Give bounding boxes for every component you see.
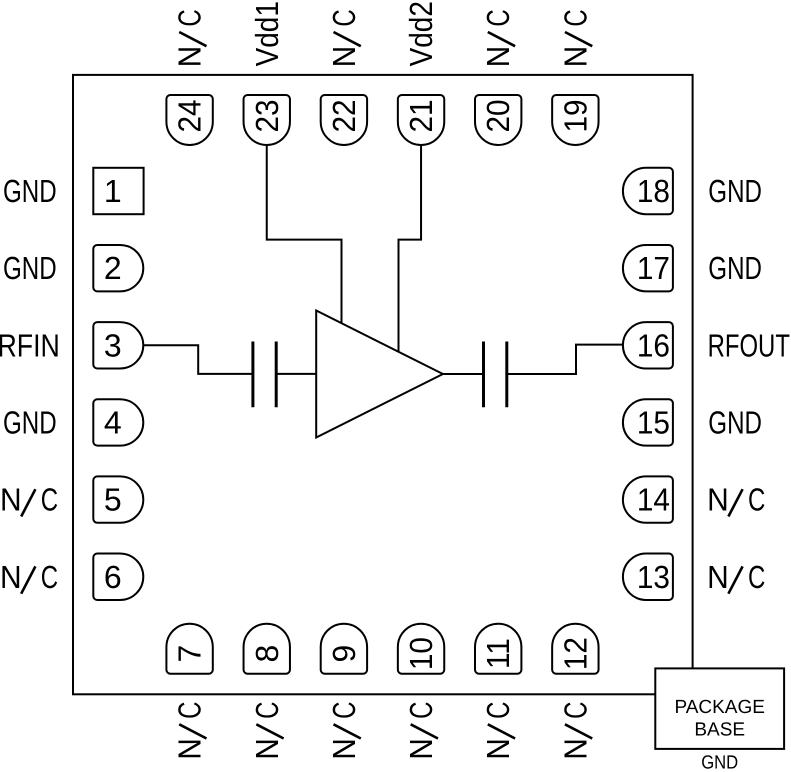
svg-text:22: 22: [326, 99, 362, 132]
svg-text:4: 4: [104, 405, 122, 441]
svg-text:2: 2: [104, 250, 122, 286]
svg-text:7: 7: [172, 645, 208, 663]
net label N/C (pin 19): [557, 9, 593, 67]
amplifier U1 triangle: [316, 311, 443, 438]
pin 23: [244, 95, 290, 145]
wire Vdd2: pin 21 to amplifier: [399, 145, 422, 352]
pin 9: [321, 624, 367, 674]
pin 1: [93, 168, 143, 214]
svg-text:14: 14: [637, 482, 670, 518]
pin 22: [321, 95, 367, 145]
pin 19: [552, 95, 598, 145]
svg-text:23: 23: [249, 99, 285, 132]
wire C1 to amplifier input: [276, 373, 316, 375]
pin 16: [623, 322, 673, 368]
pin 20: [475, 95, 521, 145]
net label N/C (pin 7): [172, 702, 208, 760]
pin 15: [623, 399, 673, 445]
svg-text:BASE: BASE: [694, 720, 745, 741]
svg-text:19: 19: [557, 99, 593, 132]
pin 3: [93, 322, 143, 368]
svg-text:17: 17: [637, 250, 670, 286]
net label N/C (pin 5): [0, 482, 58, 518]
pin 4: [93, 399, 143, 445]
net label N/C (pin 6): [0, 559, 58, 595]
pin 13: [623, 554, 673, 600]
wire RFIN: pin 3 to C1: [143, 345, 253, 374]
svg-text:10: 10: [403, 637, 439, 670]
svg-text:21: 21: [403, 99, 439, 132]
capacitor C1 (input DC block): [253, 342, 276, 408]
net label N/C (pin 13): [707, 559, 765, 595]
svg-text:13: 13: [637, 559, 670, 595]
svg-text:PACKAGE: PACKAGE: [674, 697, 764, 718]
pin 2: [93, 245, 143, 291]
capacitor C2 (output DC block): [484, 342, 507, 408]
svg-text:GND: GND: [708, 250, 762, 286]
svg-text:9: 9: [326, 645, 362, 663]
net label N/C (pin 24): [172, 9, 208, 67]
label PACKAGE BASE: [674, 697, 764, 741]
pin 14: [623, 476, 673, 522]
svg-text:GND: GND: [3, 405, 57, 441]
svg-text:24: 24: [172, 99, 208, 132]
pin 18: [623, 168, 673, 214]
svg-text:1: 1: [104, 173, 122, 209]
svg-text:5: 5: [104, 482, 122, 518]
pin 5: [93, 476, 143, 522]
pin 12: [552, 624, 598, 674]
svg-text:8: 8: [249, 645, 285, 663]
net label N/C (pin 14): [707, 482, 765, 518]
net label N/C (pin 10): [403, 702, 439, 760]
pin 8: [244, 624, 290, 674]
svg-text:15: 15: [637, 405, 670, 441]
wire RFOUT: C2 to pin 16: [507, 345, 623, 374]
pin 11: [475, 624, 521, 674]
pin 6: [93, 554, 143, 600]
svg-text:11: 11: [480, 638, 516, 669]
pin 24: [166, 95, 212, 145]
pin 7: [166, 624, 212, 674]
svg-text:RFOUT: RFOUT: [708, 327, 790, 363]
wire Vdd1: pin 23 to amplifier: [267, 145, 342, 324]
svg-text:GND: GND: [708, 173, 762, 209]
pin 17: [623, 245, 673, 291]
package outline body: [73, 75, 693, 694]
svg-text:12: 12: [557, 637, 593, 670]
svg-text:Vdd1: Vdd1: [249, 1, 285, 66]
pin 10: [398, 624, 444, 674]
svg-text:RFIN: RFIN: [0, 327, 60, 363]
pin 21: [398, 95, 444, 145]
net label N/C (pin 8): [249, 702, 285, 760]
svg-text:16: 16: [637, 327, 670, 363]
wire amplifier output to C2: [443, 373, 484, 375]
net label N/C (pin 20): [480, 9, 516, 67]
svg-text:GND: GND: [708, 405, 762, 441]
net label N/C (pin 9): [326, 702, 362, 760]
svg-text:18: 18: [637, 173, 670, 209]
svg-text:GND: GND: [3, 250, 57, 286]
svg-text:GND: GND: [3, 173, 57, 209]
net label N/C (pin 22): [326, 9, 362, 67]
svg-text:GND: GND: [701, 753, 738, 772]
svg-text:3: 3: [104, 327, 122, 363]
net label N/C (pin 11): [480, 702, 516, 760]
svg-text:6: 6: [104, 559, 122, 595]
svg-text:Vdd2: Vdd2: [403, 1, 439, 66]
svg-text:20: 20: [480, 99, 516, 132]
package base paddle box: [655, 668, 784, 749]
net label N/C (pin 12): [557, 702, 593, 760]
